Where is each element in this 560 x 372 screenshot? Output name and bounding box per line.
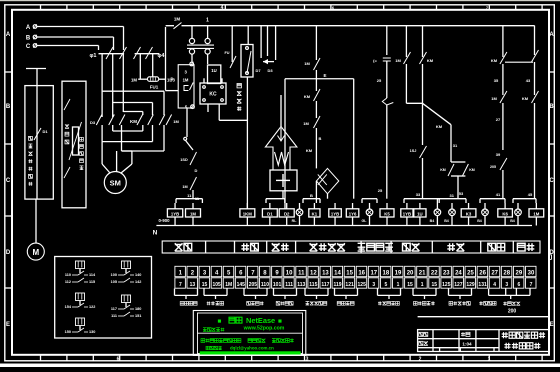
terminal group label 6	[337, 302, 354, 306]
plus box	[270, 170, 297, 191]
svg-text:D2: D2	[284, 211, 290, 216]
svg-text:5: 5	[384, 282, 387, 288]
relay coil 1KM2	[240, 209, 255, 217]
svg-text:31: 31	[453, 143, 458, 148]
svg-text:B: B	[549, 104, 554, 110]
title block rows	[418, 338, 499, 340]
svg-text:125: 125	[358, 282, 367, 288]
svg-text:7: 7	[179, 282, 182, 288]
loop right wire	[353, 79, 355, 199]
svg-text:K5: K5	[384, 211, 390, 216]
SM feeder b	[116, 151, 118, 172]
svg-text:111: 111	[285, 282, 293, 288]
svg-text:K1: K1	[312, 211, 318, 216]
svg-text:4: 4	[221, 5, 224, 11]
aux relay 5	[76, 318, 85, 326]
rv 535 blade2	[532, 91, 539, 103]
svg-text:1M: 1M	[533, 211, 539, 216]
SA top terminal	[190, 62, 194, 66]
vwire 248	[247, 26, 249, 45]
PT column 2	[207, 26, 209, 39]
box2 contact bot	[64, 167, 70, 178]
plusbox drop	[282, 191, 284, 199]
CT box1 stem	[36, 86, 38, 200]
svg-text:19: 19	[395, 270, 402, 276]
svg-text:112: 112	[65, 280, 71, 284]
box2 contact top	[64, 99, 70, 110]
svg-text:3: 3	[306, 357, 309, 363]
svg-text:1U: 1U	[417, 211, 423, 216]
svg-text:17: 17	[370, 270, 377, 276]
table header text h8	[488, 243, 505, 251]
svg-text:E: E	[323, 73, 326, 78]
svg-text:M: M	[32, 248, 39, 257]
indicator lamp 3	[434, 209, 441, 216]
rv 387 wire	[386, 61, 388, 75]
arrester box2 vtext1	[65, 124, 69, 128]
svg-text:1M: 1M	[491, 96, 497, 101]
rv 387 thermal	[386, 75, 388, 98]
SA bottom terminal	[191, 105, 195, 109]
right band bracket	[549, 254, 552, 256]
svg-text:1U: 1U	[211, 68, 217, 73]
svg-text:1M: 1M	[173, 119, 179, 124]
svg-text:115: 115	[309, 282, 317, 288]
svg-text:■: ■	[278, 318, 282, 325]
rv 422 wire	[422, 64, 424, 145]
rv diag	[423, 103, 452, 124]
svg-text:129: 129	[466, 282, 475, 288]
svg-text:■: ■	[218, 318, 222, 325]
svg-text:RL: RL	[292, 219, 298, 223]
rv 406 wire	[405, 64, 407, 103]
vwire 261	[260, 26, 262, 59]
svg-text:117: 117	[111, 307, 117, 311]
svg-text:1: 1	[488, 357, 491, 363]
terminal group label 8	[414, 302, 435, 306]
rv 503 wire c	[502, 118, 504, 150]
rv jog	[406, 102, 422, 104]
svg-text:KM: KM	[436, 124, 443, 129]
svg-text:7: 7	[530, 282, 533, 288]
svg-text:D1: D1	[267, 211, 273, 216]
svg-text:25: 25	[378, 188, 383, 193]
svg-text:1Y6: 1Y6	[349, 211, 357, 216]
svg-text:6: 6	[517, 282, 520, 288]
svg-text:13: 13	[190, 282, 196, 288]
svg-text:KM: KM	[469, 168, 475, 172]
svg-text:127: 127	[454, 282, 463, 288]
table header text h1	[175, 243, 192, 251]
rv 422 wire b	[422, 158, 424, 199]
watermark divider	[198, 332, 303, 334]
CT box 1	[25, 86, 53, 200]
svg-text:150: 150	[65, 330, 71, 334]
svg-text:101: 101	[273, 282, 282, 288]
indicator lamp 5	[482, 209, 489, 216]
mid wire d	[192, 190, 194, 199]
svg-text:3: 3	[505, 282, 508, 288]
table header text h5	[358, 243, 393, 251]
table header text h9	[517, 243, 534, 251]
rv 535 wire	[534, 62, 536, 95]
aux relay 2	[122, 261, 131, 269]
svg-text:12: 12	[310, 270, 317, 276]
svg-text:B: B	[26, 36, 31, 42]
starter tie lower 2	[152, 125, 154, 142]
svg-text:25: 25	[377, 78, 382, 83]
svg-text:45: 45	[528, 192, 533, 197]
svg-text:1M: 1M	[395, 58, 401, 63]
rv 535 blade	[532, 50, 539, 62]
bus end drop	[534, 26, 536, 56]
table header text h2	[241, 243, 258, 251]
svg-text:FU: FU	[224, 51, 229, 55]
svg-text:24: 24	[455, 270, 462, 276]
indicator lamp 4	[449, 209, 456, 216]
relay coil K58	[380, 209, 394, 217]
watermark outer box	[193, 311, 305, 356]
rv 406 blade	[404, 52, 411, 64]
junction	[184, 137, 187, 140]
kv line 316d	[315, 128, 317, 168]
svg-text:21: 21	[419, 270, 426, 276]
terminal group label 1	[180, 302, 197, 306]
arrow feed	[280, 95, 282, 127]
starter tie upper 2	[113, 102, 153, 104]
parallel contacts KM1 KM2	[451, 161, 465, 163]
fuse FU1 pill	[138, 78, 147, 80]
feed bracket 4	[362, 198, 377, 200]
feed bracket 8	[513, 198, 536, 200]
svg-text:KM: KM	[306, 148, 313, 153]
relay coil 1Y67	[346, 209, 359, 217]
svg-text:142: 142	[135, 280, 141, 284]
svg-text:30: 30	[528, 270, 535, 276]
svg-text:18: 18	[383, 270, 390, 276]
svg-text:140: 140	[135, 273, 141, 277]
svg-text:33: 33	[416, 192, 421, 197]
svg-text:1SJ: 1SJ	[410, 149, 417, 153]
watermark line2	[203, 328, 224, 332]
N bus	[156, 225, 532, 227]
svg-text:4: 4	[493, 282, 496, 288]
feeder L1	[101, 54, 103, 117]
svg-text:1: 1	[421, 282, 424, 288]
CT box1 contact	[34, 128, 41, 140]
varistor	[73, 127, 79, 155]
vertical text heyha	[237, 84, 241, 88]
svg-text:B4: B4	[510, 219, 515, 223]
svg-text:KM: KM	[440, 168, 446, 172]
svg-text:1M: 1M	[225, 282, 232, 288]
svg-text:D3: D3	[267, 68, 273, 73]
rv 387 sym	[383, 57, 391, 59]
svg-text:K6: K6	[502, 211, 508, 216]
diamond KM	[316, 168, 338, 193]
PT column 1	[191, 26, 193, 39]
relay coil K15	[309, 209, 320, 217]
svg-text:E: E	[549, 322, 553, 328]
loop box top	[285, 78, 354, 80]
svg-text:28: 28	[503, 270, 510, 276]
svg-text:29: 29	[516, 270, 523, 276]
svg-text:φ1: φ1	[90, 53, 97, 59]
svg-text:31: 31	[449, 193, 454, 198]
SM feeder c	[131, 151, 133, 164]
relay KC box	[200, 83, 226, 104]
svg-text:11: 11	[298, 270, 305, 276]
watermark line3	[201, 339, 241, 343]
svg-text:131: 131	[478, 282, 487, 288]
rv 503 top	[502, 26, 504, 58]
feed bracket 5	[404, 198, 439, 200]
surge arrow	[265, 127, 297, 171]
aux relay 1	[76, 261, 85, 269]
svg-text:10: 10	[286, 270, 293, 276]
terminal strip	[175, 266, 185, 276]
svg-text:GL: GL	[362, 219, 368, 223]
svg-text:1YB: 1YB	[331, 211, 339, 216]
svg-text:15: 15	[407, 282, 413, 288]
motor M feed	[35, 199, 37, 243]
feed bracket 2	[266, 198, 285, 200]
feed bracket 6	[437, 198, 466, 200]
title block box	[418, 330, 549, 352]
phase A wire	[37, 26, 124, 28]
vwire 232	[231, 26, 233, 63]
indicator lamp 6	[515, 209, 522, 216]
terminal group label 5	[306, 302, 327, 306]
svg-text:1:04: 1:04	[462, 342, 472, 347]
svg-text:D3: D3	[90, 120, 96, 125]
kv line 316	[315, 26, 317, 61]
contact 1M	[190, 177, 197, 190]
svg-text:3: 3	[372, 282, 375, 288]
svg-text:B: B	[310, 193, 313, 198]
terminal group label 4	[276, 302, 293, 306]
svg-text:A: A	[26, 25, 31, 31]
rv 503 blade2	[500, 91, 507, 103]
svg-text:1KM: 1KM	[243, 211, 252, 216]
svg-text:1M: 1M	[182, 185, 187, 189]
svg-text:KM: KM	[522, 96, 529, 101]
phase B wire	[37, 36, 114, 38]
kv line 316b	[315, 70, 317, 91]
svg-text:16: 16	[358, 270, 365, 276]
svg-text:1M: 1M	[174, 17, 181, 22]
svg-text:1SD: 1SD	[180, 158, 188, 162]
svg-text:200: 200	[508, 308, 517, 314]
table header text h6	[403, 243, 420, 251]
relay coil 1M13	[529, 209, 544, 217]
svg-text:1: 1	[397, 282, 400, 288]
switch box SA	[178, 65, 194, 108]
svg-text:D: D	[6, 250, 11, 256]
svg-text:205: 205	[249, 282, 258, 288]
svg-text:100: 100	[111, 273, 117, 277]
svg-text:122: 122	[89, 305, 95, 309]
mid wire b	[186, 108, 188, 137]
knife switch box	[241, 45, 253, 78]
svg-text:1M: 1M	[131, 78, 137, 83]
SM feeder a	[101, 142, 103, 164]
svg-text:121: 121	[345, 282, 354, 288]
relay coil 1YB9	[401, 209, 413, 217]
svg-text:105: 105	[111, 280, 117, 284]
title cell shenhe	[419, 341, 428, 345]
feed bracket 1	[176, 198, 202, 200]
fuse FU1 out	[165, 27, 167, 91]
KC feeds	[203, 78, 205, 83]
svg-text:15: 15	[202, 282, 208, 288]
svg-text:K3: K3	[466, 211, 472, 216]
rv 503 blade3	[500, 158, 507, 170]
aux relay 4	[122, 295, 131, 303]
CT box1 vtext	[29, 136, 33, 140]
svg-text:1: 1	[206, 18, 209, 24]
svg-text:1M: 1M	[183, 78, 189, 83]
svg-text:41: 41	[496, 192, 501, 197]
indicator lamp 2	[366, 209, 373, 216]
relay detail box	[55, 257, 152, 339]
svg-text:KM: KM	[427, 58, 434, 63]
phase C wire	[37, 45, 99, 47]
rv 535 wire b	[534, 103, 536, 199]
SA blade	[190, 83, 194, 91]
blade 1M right	[166, 115, 172, 126]
svg-text:1M: 1M	[304, 61, 310, 66]
PT winding bars	[187, 44, 214, 46]
fuse FU1 drop	[139, 54, 141, 79]
svg-text:www.52pop.com: www.52pop.com	[243, 325, 285, 331]
control bus L1	[166, 25, 174, 27]
title cell sheji	[419, 332, 428, 336]
svg-text:13: 13	[322, 270, 329, 276]
terminal group label 2	[207, 302, 224, 306]
svg-text:113: 113	[297, 282, 305, 288]
svg-text:D: D	[171, 76, 174, 81]
svg-text:125: 125	[442, 282, 451, 288]
zone ticks	[40, 5, 42, 10]
svg-text:KM: KM	[491, 58, 498, 63]
svg-text:N: N	[153, 230, 158, 237]
title cell bili	[461, 332, 470, 336]
starter tie upper 3	[123, 111, 143, 113]
svg-text:20: 20	[407, 270, 414, 276]
svg-text:E: E	[6, 322, 10, 328]
terminal group label 9	[449, 302, 470, 306]
starter tie lower 1	[142, 125, 144, 131]
breaker QF1	[99, 53, 125, 55]
svg-text:151: 151	[135, 314, 141, 318]
svg-text:KM: KM	[304, 94, 311, 99]
title block cols	[432, 330, 434, 352]
terminal group label 10	[479, 302, 496, 306]
rv 451	[450, 125, 452, 144]
svg-text:SM: SM	[110, 179, 121, 188]
feeder L3	[122, 54, 124, 112]
busbar T top	[26, 68, 46, 70]
svg-text:A: A	[549, 32, 554, 38]
relay coil 1M1	[186, 209, 201, 217]
svg-text:C: C	[26, 44, 31, 50]
svg-text:1M: 1M	[190, 211, 196, 216]
svg-text:15: 15	[346, 270, 353, 276]
svg-text:23: 23	[443, 270, 450, 276]
rv 387 top	[386, 26, 388, 56]
title main text 1	[502, 332, 545, 338]
svg-text:111: 111	[111, 314, 117, 318]
terminal label right	[503, 302, 520, 306]
svg-text:205: 205	[490, 165, 496, 169]
starter tie lower 3	[163, 125, 165, 151]
breaker QF2	[135, 53, 160, 55]
diamond drop	[315, 181, 317, 203]
rv 503 blade	[500, 52, 507, 64]
svg-text:114: 114	[89, 273, 96, 277]
svg-text:KM: KM	[130, 119, 137, 124]
feed bracket 3	[303, 198, 320, 200]
svg-text:119: 119	[333, 282, 341, 288]
kv line 316c	[315, 101, 317, 118]
rv 422 top	[422, 26, 424, 58]
watermark green bar	[200, 351, 301, 354]
svg-text:35: 35	[494, 78, 499, 83]
svg-text:B4: B4	[477, 219, 482, 223]
svg-text:105: 105	[212, 282, 221, 288]
title main text 2	[504, 343, 540, 349]
table header text h4	[310, 243, 345, 251]
feed bracket 7	[480, 198, 505, 200]
fuse box vertical	[208, 65, 221, 84]
arrow symbol	[263, 61, 274, 63]
svg-text:1YB: 1YB	[403, 211, 411, 216]
rv 503 wire b	[502, 103, 504, 118]
svg-text:D1: D1	[42, 129, 48, 134]
arrester box 2	[62, 81, 86, 208]
contactor KM blades	[96, 115, 102, 126]
svg-text:B4: B4	[430, 219, 435, 223]
svg-text:D: D	[195, 168, 198, 173]
arrow inner W	[275, 152, 289, 165]
svg-text:110: 110	[65, 273, 71, 277]
svg-text:FU1: FU1	[150, 85, 159, 90]
motor SM	[104, 172, 126, 194]
terminal group label 3	[247, 302, 264, 306]
svg-text:26: 26	[479, 270, 486, 276]
relay coil 1YB6	[329, 209, 342, 217]
svg-text:C: C	[549, 178, 554, 184]
rv 503 wire d	[502, 170, 504, 199]
svg-text:130: 130	[89, 330, 95, 334]
svg-text:27: 27	[496, 117, 501, 122]
feeder L2	[112, 54, 114, 117]
svg-text:A: A	[6, 32, 11, 38]
svg-text:145: 145	[237, 282, 246, 288]
svg-text:14: 14	[334, 270, 341, 276]
svg-text:1YB: 1YB	[171, 211, 179, 216]
terminal group label 7	[378, 302, 399, 306]
rv 451c	[451, 175, 465, 177]
relay coil D24	[279, 209, 294, 217]
terminal group brackets	[174, 289, 176, 296]
mid wire c	[185, 140, 193, 150]
svg-text:6: 6	[117, 357, 120, 363]
svg-text:43: 43	[526, 78, 531, 83]
svg-text:KC: KC	[209, 92, 217, 98]
svg-text:B: B	[6, 104, 11, 110]
